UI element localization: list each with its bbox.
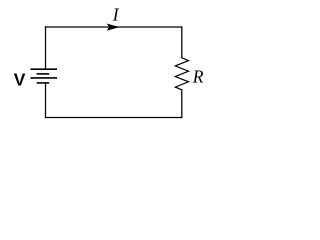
battery V plate short upper (37, 73, 50, 75)
svg-text:V: V (14, 70, 26, 90)
wire right upper (R top lead) (181, 27, 183, 58)
wire left upper (V+ lead) (45, 27, 47, 69)
wire top (node between V+ and R top) (46, 26, 182, 28)
svg-text:R: R (192, 67, 204, 87)
wire bottom (node between V- and R bottom) (46, 117, 182, 119)
wire right lower (R bottom lead) (181, 90, 183, 118)
battery V plate short bottom (37, 82, 50, 84)
battery V plate long top (31, 68, 58, 70)
resistor R zigzag (175, 58, 188, 90)
wire left lower (V- lead) (45, 83, 47, 118)
battery V plate long lower (31, 77, 58, 79)
current arrow I (108, 24, 119, 30)
svg-text:I: I (112, 5, 120, 25)
